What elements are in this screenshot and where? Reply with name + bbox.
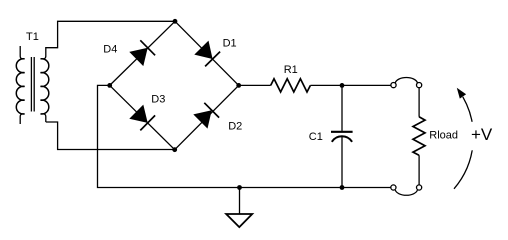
connector top-left circle bbox=[391, 83, 396, 88]
secondary bottom lead bbox=[41, 114, 46, 122]
ground bbox=[226, 188, 252, 228]
connector bottom-right circle bbox=[417, 185, 422, 190]
wire bottom rail ground to bottom-left connector bbox=[240, 187, 391, 189]
bridge arm bottom-left bbox=[110, 85, 175, 149]
wire left node down to bottom rail bbox=[98, 85, 240, 187]
node right junction bbox=[236, 83, 241, 88]
node C1 bottom junction bbox=[340, 185, 345, 190]
svg-text:D2: D2 bbox=[228, 121, 242, 133]
connector bottom-left circle bbox=[391, 185, 396, 190]
secondary top lead bbox=[41, 56, 46, 59]
primary top lead bbox=[20, 46, 24, 59]
connector top arc bbox=[395, 78, 417, 83]
svg-text:D1: D1 bbox=[223, 37, 237, 49]
wire secondary bottom to bridge bottom node bbox=[46, 122, 175, 150]
bridge arm bottom-right bbox=[175, 85, 239, 149]
connector top-right circle bbox=[417, 83, 422, 88]
node left junction bbox=[107, 83, 112, 88]
resistor Rload bbox=[413, 117, 458, 155]
arrow head bbox=[457, 88, 466, 99]
wire top-right connector down to Rload bbox=[418, 88, 420, 117]
wire right node to R1 bbox=[239, 84, 271, 86]
diode D3 bbox=[129, 94, 165, 131]
node bottom junction bbox=[172, 147, 177, 152]
node R1/C1 junction bbox=[340, 83, 345, 88]
primary winding bbox=[16, 59, 24, 114]
svg-text:C1: C1 bbox=[309, 131, 323, 143]
diode D4 bbox=[103, 40, 155, 66]
diode D2 bbox=[193, 103, 242, 133]
secondary winding bbox=[41, 59, 49, 114]
bridge arm top-left bbox=[110, 21, 175, 85]
svg-text:R1: R1 bbox=[284, 64, 298, 76]
svg-text:Rload: Rload bbox=[429, 129, 458, 141]
+V label bbox=[468, 122, 498, 151]
wire secondary top to bridge top node bbox=[46, 21, 175, 56]
node top junction bbox=[173, 19, 178, 24]
resistor R1 bbox=[271, 64, 311, 92]
diode D1 bbox=[194, 37, 236, 66]
core bbox=[30, 57, 32, 112]
primary bottom lead bbox=[20, 114, 24, 124]
bridge arm top-right bbox=[175, 21, 239, 85]
wire Rload down to bottom-right connector bbox=[418, 155, 420, 185]
transformer T1 bbox=[16, 31, 49, 124]
wire junction down to C1 bbox=[341, 85, 343, 130]
wire R1 to top-left connector bbox=[310, 84, 391, 86]
svg-text:+V: +V bbox=[471, 125, 493, 144]
svg-text:D4: D4 bbox=[103, 44, 117, 56]
svg-text:D3: D3 bbox=[151, 94, 165, 106]
capacitor C1 bbox=[309, 131, 353, 143]
node ground junction bbox=[237, 185, 242, 190]
connector bottom arc bbox=[395, 190, 417, 195]
svg-text:T1: T1 bbox=[26, 31, 39, 43]
wire C1 to bottom rail bbox=[341, 137, 343, 188]
arrow arc bbox=[454, 97, 473, 189]
